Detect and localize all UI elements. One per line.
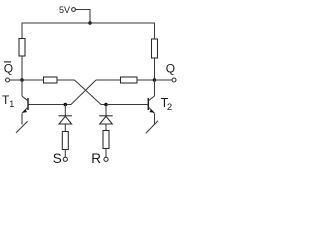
wire Q junction to terminal (155, 79, 172, 81)
svg-text:1: 1 (9, 99, 14, 109)
wire diagonal Qbar to T2 base (75, 80, 107, 105)
resistor right collector (152, 39, 158, 58)
terminal S (63, 157, 67, 161)
wire right cross resistor lead (96, 79, 121, 81)
wire resistor R to terminal (105, 149, 107, 158)
wire right resistor to Q node (154, 58, 156, 80)
terminal Qbar (6, 78, 10, 82)
wire diagonal Q to T1 base (65, 80, 96, 105)
wire 5V terminal to corner (75, 10, 90, 24)
terminal 5V (72, 8, 76, 12)
resistor left collector (19, 39, 25, 57)
wire T2 base to diode R (105, 105, 107, 116)
wire Qbar terminal to junction (10, 79, 23, 81)
node supply junction (88, 21, 92, 25)
svg-text:S: S (53, 151, 62, 166)
resistor R input (103, 131, 109, 149)
svg-text:Q: Q (166, 61, 175, 75)
wire left cross resistor to diagonal (57, 79, 75, 81)
node T1 base junction (64, 103, 68, 107)
diode S (59, 116, 73, 124)
wire top rail (22, 22, 155, 24)
svg-text:2: 2 (167, 102, 172, 113)
terminal R (104, 157, 108, 161)
wire resistor S to terminal (64, 150, 66, 158)
wire left resistor to Qbar node (21, 56, 23, 80)
wire left vertical top (21, 23, 23, 39)
wire diode S to resistor (64, 124, 66, 132)
resistor cross-coupling left (44, 77, 58, 83)
transistor T1 (16, 80, 64, 133)
wire diode R to resistor (105, 124, 107, 131)
node Qbar junction (20, 78, 24, 82)
wire right cross resistor to Q node (137, 79, 155, 81)
resistor cross-coupling right (121, 77, 138, 83)
transistor T2 (108, 80, 158, 133)
resistor S input (62, 132, 68, 150)
wire Qbar to left base resistor (22, 79, 44, 81)
wire right vertical top (154, 23, 156, 40)
node T2 base junction (104, 103, 108, 107)
svg-text:R: R (91, 151, 101, 166)
node Q junction (153, 78, 157, 82)
diode R (99, 116, 113, 124)
svg-text:Q: Q (4, 61, 13, 75)
terminal Q (172, 78, 176, 82)
wire T1 base to diode S (64, 105, 66, 116)
svg-text:5V: 5V (59, 5, 70, 15)
